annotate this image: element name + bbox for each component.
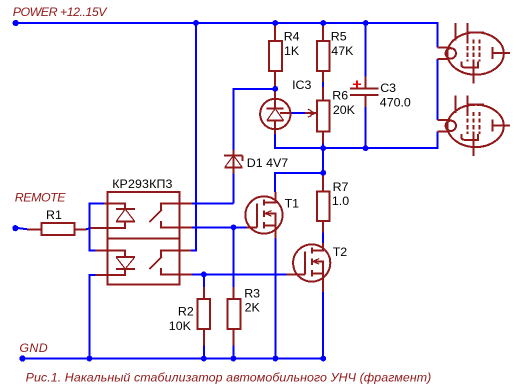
resistor R4 (269, 24, 282, 89)
wire C3 bottom lead (365, 107, 367, 148)
svg-text:R5: R5 (331, 30, 347, 44)
tube V2 heater (446, 121, 456, 131)
wire IC3 ref to R6 wiper (291, 112, 305, 114)
shunt regulator IC3 (260, 89, 290, 134)
svg-text:GND: GND (19, 341, 47, 355)
wire C3 top lead (365, 23, 367, 77)
svg-text:2K: 2K (245, 300, 261, 314)
svg-text:R1: R1 (46, 208, 62, 222)
resistor R5 (317, 24, 330, 82)
svg-text:470.0: 470.0 (380, 95, 411, 109)
wire R1 to opto LED1 anode pin (86, 228, 91, 229)
zener diode D1 (224, 150, 243, 173)
terminal REMOTE (12, 225, 18, 231)
wire D1 anode down to pin A line (233, 174, 235, 204)
wire opto switch1 bottom pin B to T1 gate (192, 226, 247, 228)
svg-text:Рис.1. Накальный стабилизатор: Рис.1. Накальный стабилизатор автомобиль… (26, 370, 432, 384)
wire opto switch2 bottom pin D to R2 and T2 gate (192, 273, 287, 275)
opto switch2 (149, 250, 191, 274)
MOSFET T2 (287, 243, 331, 292)
wire POWER +12..15V top rail to tube heater chain (16, 23, 438, 48)
svg-text:КР293КП3: КР293КП3 (112, 177, 172, 191)
svg-text:D1 4V7: D1 4V7 (247, 156, 288, 170)
vacuum tube V2 (437, 96, 510, 156)
junction GND at T1 source (273, 356, 279, 362)
MOSFET T1 (245, 192, 282, 238)
svg-text:R4: R4 (284, 30, 300, 44)
junction mid rail at C3 (363, 145, 369, 151)
terminal POWER (13, 20, 19, 26)
tube V1 grid leads (455, 23, 484, 40)
tube V2 grid leads (455, 96, 484, 114)
tube V1 cathode (461, 62, 478, 68)
tube V2 anode (492, 120, 494, 132)
optocoupler KR293KP3 box (108, 192, 180, 284)
wire T1 source to GND (275, 238, 277, 359)
svg-text:C3: C3 (380, 81, 396, 95)
tube V2 grids (468, 112, 480, 134)
wire opto switch1 top pin A to D1 anode (192, 202, 234, 204)
vacuum tube V1 (437, 23, 510, 83)
wire T1 gate node down to R3 (233, 227, 235, 287)
resistor R2 (198, 287, 211, 345)
svg-text:R3: R3 (244, 286, 260, 300)
svg-text:47K: 47K (331, 44, 354, 58)
wire GND rail and T2 source (22, 292, 323, 359)
tube V1 anode (492, 47, 494, 59)
junction R7 top / T1 drain (320, 170, 326, 176)
svg-text:R7: R7 (333, 180, 349, 194)
tube V1 heater (446, 48, 456, 58)
capacitor C3 (350, 77, 379, 108)
junction GND at T2 source corner (320, 356, 326, 362)
opto switch1 (149, 203, 191, 227)
wire node R4 bottom to D1 cathode (234, 89, 276, 150)
opto LED2 (96, 250, 135, 274)
svg-text:POWER +12..15V: POWER +12..15V (13, 5, 109, 19)
opto LED1 (91, 203, 135, 228)
resistor R1 (28, 223, 87, 235)
junction GND at opto LED2 return (87, 356, 93, 362)
wire heater chain tube1 to tube2 (436, 59, 438, 120)
junction GND at R3 (231, 356, 237, 362)
junction R2 top / T2 gate node (201, 272, 207, 278)
junction on POWER rail at R5 (320, 20, 326, 26)
svg-text:IC3: IC3 (292, 78, 311, 92)
svg-text:1.0: 1.0 (332, 194, 349, 208)
junction GND at R2 (201, 356, 207, 362)
svg-text:T2: T2 (333, 245, 348, 259)
terminal GND (19, 355, 25, 361)
svg-text:10K: 10K (169, 319, 192, 333)
tube V1 grids (468, 40, 480, 62)
tube V2 cathode (461, 134, 478, 140)
junction T1 gate node (231, 225, 237, 231)
resistor R3 (228, 287, 241, 345)
svg-text:R2: R2 (178, 305, 194, 319)
wire power rail vertical down to opto switch2 top pin (191, 23, 196, 250)
junction on POWER rail at C3 (363, 20, 369, 26)
wire R2 top branch (203, 274, 205, 287)
resistor R7 (317, 173, 330, 233)
svg-text:20K: 20K (333, 103, 356, 117)
wire opto LED2 cathode down to GND (90, 275, 96, 359)
svg-text:T1: T1 (285, 197, 300, 211)
svg-text:R6: R6 (332, 89, 348, 103)
wire REMOTE terminal to R1 (16, 228, 28, 230)
junction on POWER rail at R4 (272, 20, 278, 26)
wire R5 bottom to R6 top (322, 82, 324, 87)
wire opto LED1 cathode loop to LED2 anode (90, 203, 105, 250)
svg-text:REMOTE: REMOTE (15, 191, 66, 205)
junction node R4/IC3/D1 (272, 86, 278, 92)
wire R2 bottom to GND (203, 346, 205, 359)
wire R3 bottom to GND (233, 346, 235, 359)
wire R6 bottom to R7 top and T1 drain (275, 144, 323, 192)
junction mid rail at R6/R7 (320, 145, 326, 151)
potentiometer R6 (305, 87, 330, 143)
wire R7 bottom to T2 drain (322, 233, 324, 244)
svg-text:1K: 1K (284, 44, 300, 58)
wire IC3 anode to mid rail to heater return (275, 131, 438, 148)
junction on POWER rail at power vertical (193, 20, 199, 26)
